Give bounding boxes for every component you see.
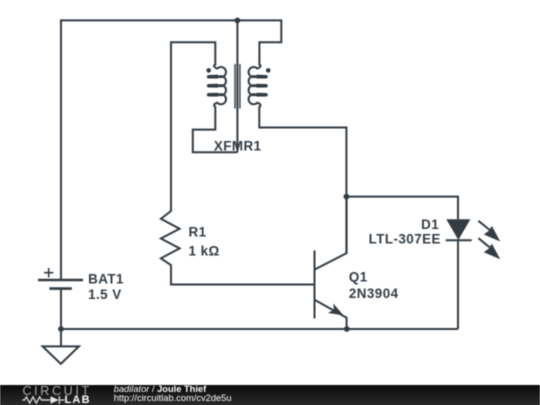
svg-text:R1: R1 [189,225,207,240]
svg-text:1 kΩ: 1 kΩ [189,243,220,258]
svg-text:BAT1: BAT1 [88,272,124,287]
svg-text:Q1: Q1 [349,269,368,284]
svg-text:1.5 V: 1.5 V [88,287,122,302]
svg-text:XFMR1: XFMR1 [214,138,262,153]
svg-text:D1: D1 [421,217,439,232]
svg-text:2N3904: 2N3904 [349,286,399,301]
svg-text:LTL-307EE: LTL-307EE [369,232,441,247]
